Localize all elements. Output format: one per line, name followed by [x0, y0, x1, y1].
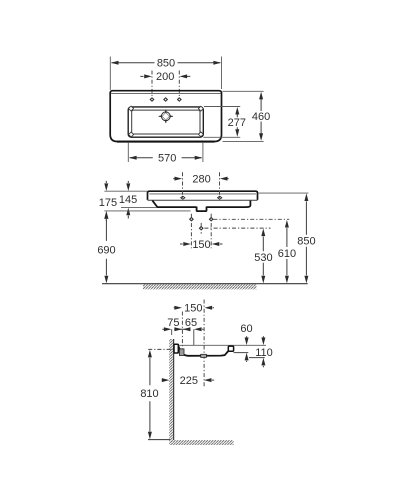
svg-text:530: 530 — [254, 252, 272, 264]
svg-text:610: 610 — [278, 248, 296, 260]
svg-text:65: 65 — [185, 317, 197, 329]
svg-text:280: 280 — [192, 174, 210, 186]
svg-text:145: 145 — [119, 194, 137, 206]
svg-text:110: 110 — [255, 347, 273, 359]
svg-text:850: 850 — [157, 58, 175, 70]
svg-text:175: 175 — [99, 197, 117, 209]
svg-text:200: 200 — [156, 71, 174, 83]
svg-text:60: 60 — [240, 323, 252, 335]
svg-text:225: 225 — [180, 375, 198, 387]
svg-text:810: 810 — [140, 388, 158, 400]
svg-text:690: 690 — [97, 245, 115, 257]
svg-text:150: 150 — [184, 303, 202, 315]
svg-text:460: 460 — [252, 111, 270, 123]
svg-text:570: 570 — [158, 153, 176, 165]
svg-text:277: 277 — [228, 117, 246, 129]
svg-text:150: 150 — [192, 239, 210, 251]
svg-text:850: 850 — [297, 236, 315, 248]
svg-text:75: 75 — [167, 317, 179, 329]
